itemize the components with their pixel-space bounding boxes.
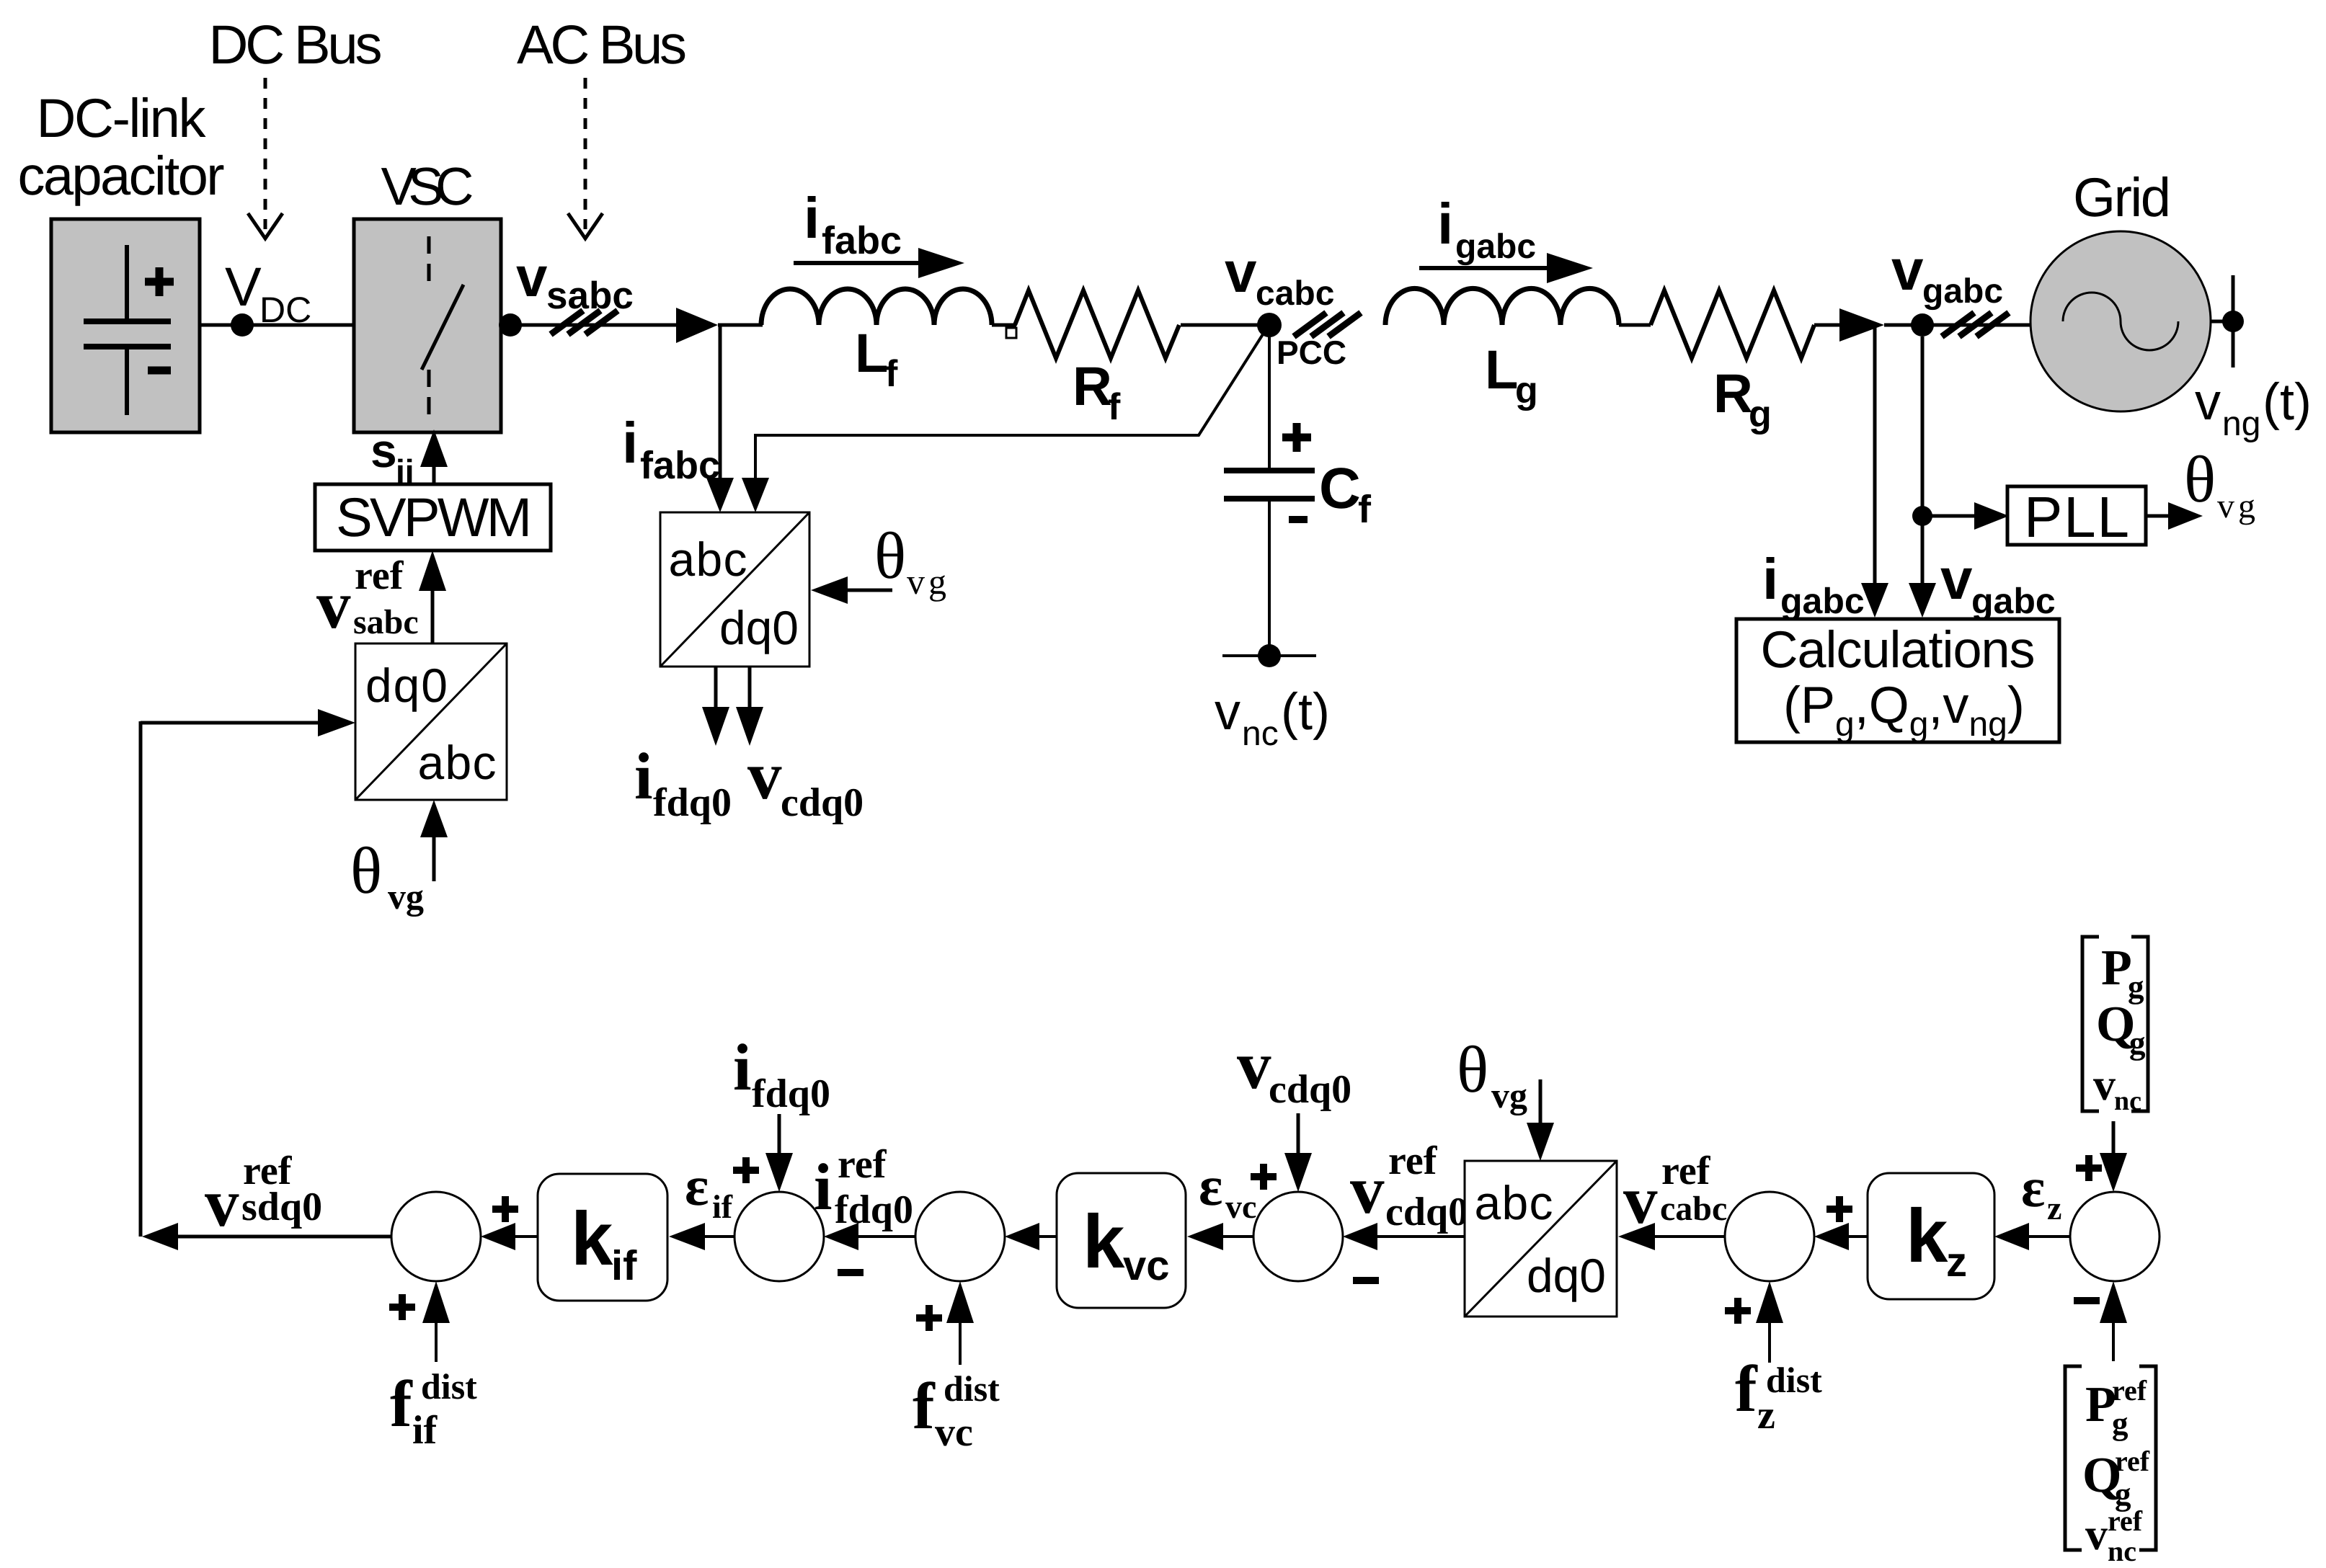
svg-text:abc: abc <box>418 736 497 789</box>
label i_gabc measurement <box>1762 547 1865 621</box>
arrow theta into abc/dq0 <box>848 589 892 592</box>
wire VSC to junction <box>501 324 678 327</box>
svg-text:f: f <box>1358 488 1372 531</box>
label eps_z <box>2021 1156 2061 1226</box>
svg-text:v: v <box>1940 547 1973 611</box>
svg-text:i: i <box>1437 192 1453 256</box>
svg-text:if: if <box>412 1408 438 1453</box>
label v_sabc_ref <box>316 553 419 643</box>
arrow k_if to S1 <box>515 1235 538 1238</box>
label v_sabc <box>516 245 634 317</box>
arrow S2 to k_if <box>705 1235 734 1238</box>
wire i_g measurement drop <box>1873 325 1877 584</box>
neutral stub <box>2232 275 2235 367</box>
label V_DC <box>225 257 311 330</box>
label v_cabc_ref <box>1623 1149 1727 1238</box>
label v_nc(t) <box>1215 683 1330 753</box>
svg-text:g: g <box>2129 1025 2146 1061</box>
arrow S6 to k_z <box>2029 1235 2070 1238</box>
svg-text:θ: θ <box>874 519 906 592</box>
node v_nc <box>1258 644 1281 667</box>
C_f minus sign <box>1289 516 1308 523</box>
inductor L_g <box>1385 288 1619 325</box>
svg-text:R: R <box>1713 363 1753 424</box>
arrow f_if into S1 <box>435 1322 438 1362</box>
svg-text:ε: ε <box>1199 1154 1222 1217</box>
svg-text:dq0: dq0 <box>719 601 799 654</box>
label theta_vg control <box>1457 1033 1527 1116</box>
wire v_c measurement tap <box>755 326 1268 479</box>
label R_f <box>1073 356 1121 428</box>
svg-text:θ: θ <box>1457 1033 1488 1106</box>
matrix Pg Qg vnc <box>2082 937 2148 1111</box>
svg-text:AC Bus: AC Bus <box>517 14 687 76</box>
svg-text:f: f <box>390 1367 413 1440</box>
svg-text:i: i <box>622 411 638 475</box>
capacitor symbol <box>84 245 174 415</box>
label L_f <box>855 323 898 395</box>
wire junction to inductor <box>718 324 763 327</box>
label i_gabc top <box>1437 192 1536 266</box>
svg-text:v: v <box>1215 683 1240 741</box>
label i_fdq0 out <box>634 739 732 825</box>
arrow theta into block2 <box>1539 1079 1542 1124</box>
svg-text:fabc: fabc <box>640 444 720 487</box>
svg-text:L: L <box>855 323 888 384</box>
node v_sabc <box>499 313 522 337</box>
wire grid to neutral <box>2211 320 2233 324</box>
three-phase slashes PCC <box>1294 313 1361 337</box>
svg-text:dist: dist <box>944 1368 1000 1409</box>
svg-text:z: z <box>2047 1190 2061 1226</box>
label L_g <box>1485 339 1538 411</box>
wire L_f to R_f <box>992 324 1016 327</box>
svg-text:DC: DC <box>259 290 311 330</box>
arrow SVPWM to VSC <box>432 461 436 484</box>
svg-text:cdq0: cdq0 <box>781 780 864 825</box>
transform block dq0/abc <box>355 643 507 800</box>
label v_cdq0 fb <box>1237 1027 1351 1112</box>
svg-text:ref: ref <box>1388 1139 1438 1183</box>
label i_fabc measurement <box>622 411 720 487</box>
svg-text:dq0: dq0 <box>1527 1249 1606 1302</box>
svg-text:nc: nc <box>2114 1086 2141 1116</box>
plus sign S4 top <box>1251 1164 1277 1190</box>
svg-text:ng: ng <box>2222 405 2260 443</box>
minus sign S2 <box>838 1269 864 1276</box>
summing node S1 <box>391 1192 481 1281</box>
svg-text:v: v <box>516 245 548 308</box>
arrow matrix1 into S6 <box>2112 1121 2116 1156</box>
grid source circle <box>2030 231 2211 411</box>
svg-text:θ: θ <box>350 834 382 907</box>
arrow f_z into S5 <box>1768 1322 1771 1363</box>
label f_z_dist <box>1735 1352 1822 1438</box>
plus sign S3 bottom <box>916 1305 942 1331</box>
label theta_vg PLL <box>2184 442 2259 525</box>
svg-text:VSC: VSC <box>381 156 474 216</box>
svg-text:f: f <box>1108 386 1121 428</box>
label s_ij <box>370 424 414 490</box>
arrow into PLL <box>1922 514 1974 518</box>
arrow into v_gabc node <box>1839 308 1884 342</box>
svg-text:sabc: sabc <box>546 275 634 317</box>
svg-text:R: R <box>1073 356 1112 417</box>
arrow v_cdq0 into S4 <box>1297 1113 1300 1156</box>
svg-text:f: f <box>913 1369 936 1443</box>
wire i_f measurement drop <box>719 325 722 479</box>
svg-text:fdq0: fdq0 <box>835 1188 913 1232</box>
svg-text:gabc: gabc <box>1922 272 2003 311</box>
svg-text:i: i <box>1762 547 1778 611</box>
plus sign S6 top <box>2076 1155 2102 1181</box>
svg-text:C: C <box>1319 456 1361 520</box>
node V_DC <box>231 313 254 337</box>
inductor L_f <box>761 289 992 325</box>
svg-text:ε: ε <box>2021 1156 2045 1219</box>
summing node S4 <box>1253 1192 1343 1281</box>
svg-text:v: v <box>316 566 351 643</box>
svg-text:DC-link: DC-link <box>37 88 207 149</box>
svg-text:(t): (t) <box>1281 683 1330 741</box>
svg-text:k: k <box>1083 1200 1125 1284</box>
node v_ng <box>2222 311 2244 332</box>
svg-text:gabc: gabc <box>1455 228 1536 266</box>
svg-text:ref: ref <box>2112 1374 2147 1407</box>
gain block k_if <box>538 1174 667 1301</box>
svg-text:L: L <box>1485 339 1518 401</box>
arrow i_fdq0 into S2 <box>778 1114 781 1156</box>
svg-text:v: v <box>2085 1510 2108 1559</box>
node PLL tap <box>1912 506 1932 526</box>
svg-text:vg: vg <box>907 561 950 602</box>
svg-text:v: v <box>1891 238 1924 302</box>
svg-text:f: f <box>885 353 898 395</box>
arrow PLL out <box>2146 514 2170 518</box>
wire DC link to VSC <box>200 324 354 327</box>
resistor R_f <box>1015 290 1179 358</box>
wire R_f to PCC <box>1181 324 1269 327</box>
label R_g <box>1713 363 1772 435</box>
wire v_g measurement drop <box>1921 337 1925 584</box>
minus sign S4 <box>1353 1277 1379 1284</box>
svg-text:z: z <box>1757 1393 1775 1438</box>
arrow block2 to S4 <box>1377 1235 1465 1238</box>
three-phase slashes grid <box>1942 313 2009 337</box>
label eps_if <box>685 1154 733 1225</box>
arrow matrix2 into S6 <box>2112 1322 2115 1361</box>
transform block abc/dq0 top <box>660 512 809 667</box>
svg-text:ref: ref <box>838 1142 887 1187</box>
svg-text:capacitor: capacitor <box>18 146 225 207</box>
wire C_f to neutral node <box>1268 499 1271 656</box>
VSC converter block <box>354 219 501 432</box>
arrow f_vc into S3 <box>959 1322 962 1365</box>
svg-text:vg: vg <box>1491 1075 1527 1116</box>
svg-text:i: i <box>814 1150 833 1224</box>
label eps_vc <box>1199 1154 1256 1225</box>
svg-text:dist: dist <box>421 1366 477 1407</box>
gain block k_z <box>1868 1173 1994 1299</box>
label v_cdq0 out <box>747 737 864 825</box>
minus sign S6 bottom <box>2074 1297 2100 1304</box>
node PCC <box>1257 313 1282 337</box>
svg-text:s: s <box>370 424 397 477</box>
AC bus dashed pointer <box>568 78 603 239</box>
SVPWM block <box>315 484 551 551</box>
wire sum1 to feedback corner <box>178 1235 391 1239</box>
plus sign S5 right <box>1826 1196 1852 1222</box>
svg-text:abc: abc <box>1475 1176 1553 1229</box>
svg-text:fdq0: fdq0 <box>653 780 732 825</box>
arrow i_fabc <box>794 261 918 265</box>
wire feedback into dq0/abc <box>141 721 318 725</box>
label C_f <box>1319 456 1372 531</box>
svg-text:sabc: sabc <box>353 603 419 641</box>
svg-text:gabc: gabc <box>1780 581 1865 621</box>
svg-text:gabc: gabc <box>1971 581 2056 621</box>
DC bus dashed pointer <box>248 78 283 239</box>
label f_vc_dist <box>913 1368 1000 1455</box>
svg-text:v: v <box>1237 1027 1271 1103</box>
svg-text:ε: ε <box>685 1154 709 1217</box>
VSC switch symbol <box>422 236 463 418</box>
svg-text:v: v <box>2195 373 2221 431</box>
arrow k_vc to S3 <box>1039 1235 1057 1238</box>
svg-text:ref: ref <box>1661 1149 1711 1193</box>
svg-text:DC Bus: DC Bus <box>209 14 383 76</box>
label i_fabc top <box>804 186 902 262</box>
svg-text:nc: nc <box>1242 715 1279 753</box>
svg-text:k: k <box>571 1197 613 1281</box>
svg-text:vc: vc <box>1123 1242 1170 1289</box>
svg-text:PCC: PCC <box>1277 334 1346 371</box>
svg-text:ref: ref <box>2115 1445 2150 1477</box>
feedback riser wire <box>139 721 143 1237</box>
summing node S2 <box>734 1192 824 1281</box>
summing node S5 <box>1725 1192 1814 1281</box>
transform block abc/dq0 control <box>1465 1161 1617 1317</box>
label v_gabc <box>1891 238 2003 311</box>
label theta_vg top <box>874 519 950 602</box>
svg-text:i: i <box>804 186 820 250</box>
svg-text:fdq0: fdq0 <box>752 1072 830 1116</box>
plus sign S1 input bottom <box>389 1294 415 1320</box>
arrow i_gabc <box>1419 266 1547 270</box>
label f_if_dist <box>390 1366 477 1453</box>
arrow S3 to S2 <box>858 1235 915 1238</box>
label v_gabc measurement <box>1940 547 2056 621</box>
summing node S6 <box>2070 1192 2159 1281</box>
svg-text:cabc: cabc <box>1660 1190 1727 1228</box>
svg-text:fabc: fabc <box>822 219 902 262</box>
svg-text:v: v <box>2093 1061 2116 1110</box>
label v_cabc <box>1225 240 1334 313</box>
arrow S4 to k_vc <box>1223 1235 1253 1238</box>
arrow theta to dq0/abc <box>432 837 436 881</box>
svg-text:v: v <box>205 1164 239 1241</box>
svg-text:g: g <box>1515 370 1538 411</box>
svg-text:if: if <box>611 1242 637 1289</box>
C_f plus sign <box>1282 423 1311 452</box>
svg-text:θ: θ <box>2184 442 2216 516</box>
svg-text:cdq0: cdq0 <box>1269 1067 1351 1112</box>
svg-text:dq0: dq0 <box>365 659 448 712</box>
output arrows i_fdq0 v_cdq0 <box>702 667 763 746</box>
PLL block <box>2007 486 2146 545</box>
svg-text:i: i <box>733 1030 752 1104</box>
three-phase slashes AC bus <box>551 311 618 334</box>
calculations block <box>1736 619 2059 742</box>
svg-text:Grid: Grid <box>2073 167 2171 228</box>
wire R_g to grid <box>1814 324 1839 327</box>
label v_sdq0_ref <box>205 1149 322 1241</box>
svg-text:v: v <box>747 737 782 814</box>
svg-text:vg: vg <box>388 876 424 917</box>
plus sign S2 top <box>733 1157 759 1183</box>
wire L_g to R_g <box>1619 324 1651 327</box>
svg-text:abc: abc <box>669 533 747 586</box>
label v_ng(t) <box>2195 373 2312 443</box>
plus sign S1 input right <box>492 1196 518 1222</box>
arrow dq0/abc to SVPWM <box>431 591 435 643</box>
svg-text:nc: nc <box>2108 1535 2136 1567</box>
capacitor C_f plates <box>1224 471 1315 499</box>
svg-text:v: v <box>1350 1151 1385 1228</box>
plus sign S5 bottom <box>1725 1298 1751 1324</box>
svg-text:if: if <box>712 1188 733 1225</box>
capacitor C_f branch wire <box>1268 325 1271 469</box>
arrow S5 to block2 <box>1655 1235 1725 1238</box>
svg-text:v: v <box>1225 240 1257 304</box>
svg-text:z: z <box>1946 1239 1967 1286</box>
svg-text:PLL: PLL <box>2024 485 2129 549</box>
svg-text:sdq0: sdq0 <box>241 1185 322 1229</box>
svg-text:SVPWM: SVPWM <box>336 487 532 548</box>
arrow k_z to S5 <box>1849 1235 1868 1238</box>
matrix Pg Qg vnc ref <box>2065 1366 2156 1550</box>
svg-text:cabc: cabc <box>1256 275 1334 313</box>
resistor R_g <box>1651 290 1814 358</box>
label v_cdq0_ref <box>1350 1139 1468 1234</box>
svg-text:k: k <box>1906 1194 1948 1278</box>
label i_fdq0 fb <box>733 1030 830 1116</box>
svg-text:ref: ref <box>2108 1505 2143 1537</box>
svg-text:vg: vg <box>2217 487 2259 525</box>
svg-text:vc: vc <box>1225 1188 1256 1225</box>
svg-text:Calculations: Calculations <box>1761 621 2036 679</box>
svg-text:g: g <box>1749 393 1772 435</box>
summing node S3 <box>915 1192 1005 1281</box>
gain block k_vc <box>1057 1173 1186 1308</box>
svg-text:ref: ref <box>355 553 404 598</box>
svg-text:(t): (t) <box>2263 373 2312 431</box>
label theta_vg <box>350 834 424 917</box>
svg-text:vc: vc <box>935 1410 973 1455</box>
svg-text:cdq0: cdq0 <box>1385 1190 1468 1234</box>
label DC-link capacitor <box>18 88 225 207</box>
stray square handle <box>1006 328 1016 338</box>
grid sine wave <box>2063 293 2178 350</box>
label i_fdq0_ref <box>814 1142 913 1232</box>
svg-text:g: g <box>2112 1405 2129 1441</box>
svg-text:i: i <box>634 739 653 813</box>
svg-text:f: f <box>1735 1352 1758 1425</box>
capacitor block C_dc <box>51 219 200 432</box>
junction arrow into filter <box>676 308 718 343</box>
node v_gabc <box>1911 313 1934 337</box>
svg-text:V: V <box>225 257 262 318</box>
